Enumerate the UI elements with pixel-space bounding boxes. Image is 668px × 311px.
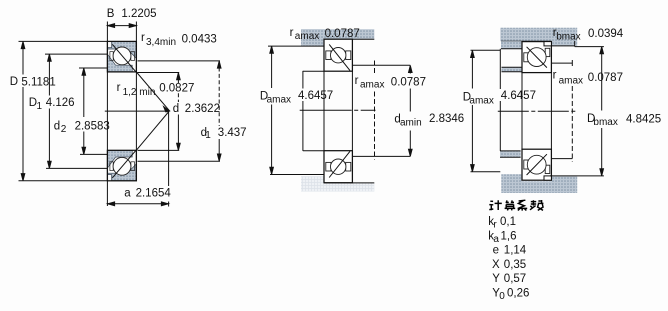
svg-text:bmax: bmax <box>593 117 617 128</box>
计 <box>489 200 502 210</box>
svg-text:amax: amax <box>295 31 319 42</box>
extension line left face <box>106 22 108 207</box>
dim da <box>409 66 411 74</box>
title 计算系数 (hand-drawn strokes) <box>489 200 543 211</box>
svg-text:0.0827: 0.0827 <box>159 83 194 95</box>
dim a extension line <box>168 111 170 186</box>
housing bar top <box>500 28 577 46</box>
dim D1 extension lines <box>45 53 107 55</box>
svg-text:1.2205: 1.2205 <box>121 8 156 20</box>
svg-text:5.1181: 5.1181 <box>21 76 55 88</box>
dim Da extension bottom <box>471 171 501 173</box>
svg-text:1,6: 1,6 <box>501 230 517 242</box>
数 <box>530 200 543 210</box>
svg-text:2: 2 <box>61 124 67 135</box>
svg-text:0,26: 0,26 <box>507 288 529 300</box>
svg-text:2.3622: 2.3622 <box>185 103 220 115</box>
ra fillet dashed line <box>374 61 376 76</box>
svg-text:2.1654: 2.1654 <box>136 188 172 200</box>
svg-text:amin: amin <box>400 117 422 128</box>
svg-text:amax: amax <box>267 95 291 106</box>
bearing cross-section top half <box>107 41 136 72</box>
svg-text:4.6457: 4.6457 <box>298 90 333 102</box>
inner ring <box>108 54 133 71</box>
svg-text:0.0787: 0.0787 <box>325 28 360 40</box>
centre axis <box>498 110 577 112</box>
算 <box>505 200 516 210</box>
ball <box>113 47 131 65</box>
svg-text:B: B <box>107 8 115 20</box>
bore side lines between halves <box>521 73 523 150</box>
svg-text:Y: Y <box>492 273 500 285</box>
centre axis <box>105 110 170 112</box>
housing shoulder top left <box>301 29 324 46</box>
svg-text:d: d <box>173 103 179 115</box>
dim d1 extension lines <box>138 60 221 62</box>
rb fillet stub top <box>552 62 573 64</box>
dim Da extension top <box>471 49 501 51</box>
outer ring <box>108 42 137 59</box>
dim a <box>107 203 168 205</box>
svg-text:amax: amax <box>469 95 493 106</box>
dim Db extension top <box>575 46 604 48</box>
shaft surface bottom <box>303 150 324 152</box>
svg-text:r: r <box>290 27 294 39</box>
svg-text:2.8346: 2.8346 <box>429 113 464 125</box>
bearing outline top <box>324 39 352 71</box>
svg-text:0.0433: 0.0433 <box>182 34 217 46</box>
dim D extension lines <box>19 40 108 42</box>
svg-text:1: 1 <box>205 130 211 141</box>
rb fillet stub bottom <box>552 158 573 160</box>
svg-text:d: d <box>54 120 60 132</box>
housing bar top <box>301 29 374 39</box>
shaft bottom light bar <box>301 176 374 191</box>
svg-text:r: r <box>553 70 557 82</box>
svg-text:0.0787: 0.0787 <box>391 77 426 89</box>
housing shoulder bottom edge <box>552 45 575 47</box>
svg-text:amax: amax <box>559 76 583 87</box>
rb fillet dashed line <box>571 60 573 66</box>
svg-text:r: r <box>355 75 359 87</box>
housing bar bottom <box>501 174 577 193</box>
cage pockets <box>110 52 113 61</box>
svg-text:4.126: 4.126 <box>46 97 75 109</box>
shaft left end <box>302 71 304 89</box>
dim D1 <box>48 54 50 95</box>
svg-text:1,14: 1,14 <box>504 245 527 257</box>
bore side lines between halves <box>323 71 325 151</box>
svg-text:4.8425: 4.8425 <box>626 114 661 126</box>
svg-text:3.437: 3.437 <box>218 127 247 139</box>
svg-text:e: e <box>493 245 499 257</box>
svg-text:4.6457: 4.6457 <box>501 90 536 102</box>
dim da extension lines <box>352 64 410 66</box>
housing bore line top <box>501 40 552 42</box>
svg-text:D: D <box>10 76 18 88</box>
dim Da <box>271 46 273 88</box>
svg-text:1,2 min: 1,2 min <box>123 87 156 98</box>
bearing outline bottom (mirror) <box>324 151 352 183</box>
outer ring corner notch <box>544 42 551 46</box>
section outline <box>107 41 136 72</box>
spacer ring strip bottom-left <box>500 151 521 157</box>
svg-text:0: 0 <box>499 291 505 302</box>
svg-text:2.8583: 2.8583 <box>75 120 110 132</box>
shaft surface top <box>303 70 324 72</box>
shaft shoulder bottom line <box>270 174 324 176</box>
extension line right face <box>135 22 137 181</box>
svg-text:r: r <box>117 82 121 94</box>
shoulder face line <box>268 45 324 47</box>
housing bore vertical line <box>499 49 501 89</box>
svg-text:0.0787: 0.0787 <box>588 72 623 84</box>
centre axis <box>300 109 376 111</box>
svg-text:3,4min: 3,4min <box>146 37 176 48</box>
dim d2 <box>83 68 85 117</box>
bearing outline bottom (mirror) <box>522 149 551 180</box>
bearing outline top <box>522 42 551 73</box>
svg-text:bmax: bmax <box>556 31 580 42</box>
svg-text:1: 1 <box>37 101 43 112</box>
housing block A' <box>501 41 522 49</box>
svg-text:X: X <box>492 259 500 271</box>
svg-text:a: a <box>124 188 131 200</box>
dim d extension lines <box>138 72 180 74</box>
系 <box>518 200 528 210</box>
housing block A'' <box>502 67 523 72</box>
dim Db extension bottom <box>550 175 604 177</box>
svg-text:r: r <box>141 32 145 44</box>
housing bore line <box>324 38 374 40</box>
load centre arrowhead <box>164 107 170 112</box>
dim Db <box>601 47 603 111</box>
dim B <box>107 25 136 27</box>
dim d <box>177 73 179 83</box>
bore bottom line <box>324 182 374 184</box>
svg-text:0,1: 0,1 <box>500 216 516 228</box>
dim Da <box>471 51 473 89</box>
dim d2 extension lines <box>79 67 107 69</box>
svg-text:0.0394: 0.0394 <box>588 28 624 40</box>
housing shoulder step <box>574 41 576 47</box>
contact angle line <box>112 44 136 72</box>
svg-text:a: a <box>493 234 499 245</box>
dim D <box>22 41 24 74</box>
contact line extension to load centre <box>136 72 169 111</box>
bearing cross-section bottom half (mirror) <box>107 150 136 181</box>
svg-text:0,35: 0,35 <box>504 259 526 271</box>
svg-text:0,57: 0,57 <box>504 273 526 285</box>
dim d1 <box>218 61 220 126</box>
svg-text:amax: amax <box>360 80 384 91</box>
